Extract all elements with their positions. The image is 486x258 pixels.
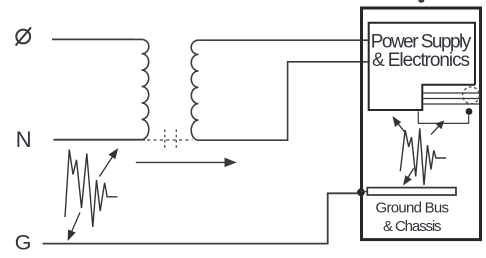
dashed neutral continuation through core xyxy=(147,139,193,141)
wire secondary top to power supply xyxy=(205,39,367,41)
left noise burst zigzag xyxy=(65,150,117,228)
cable bond dot xyxy=(466,108,473,115)
wire secondary bottom, up and into power supply xyxy=(197,62,368,140)
phase symbol Ø xyxy=(16,27,31,45)
power supply box with cable notch xyxy=(369,23,475,110)
ground bus bar xyxy=(367,188,456,195)
wire phase line xyxy=(52,38,135,40)
right zigzag arrow down-left to ground bus xyxy=(404,168,414,184)
I/O cable line 2 xyxy=(423,98,479,100)
svg-text:& Electronics: & Electronics xyxy=(372,50,470,71)
I/O cable line 1 xyxy=(423,92,479,94)
equipment enclosure box xyxy=(362,8,481,240)
I/O cable line 3 xyxy=(423,103,479,105)
left zigzag arrow down-left to ground xyxy=(68,213,80,240)
right zigzag arrow up-left xyxy=(393,118,405,133)
right zigzag arrow up-right xyxy=(431,121,443,134)
cut-off text remnant at top xyxy=(418,0,424,3)
wire dot to ground bus xyxy=(361,191,368,193)
right noise burst zigzag xyxy=(400,128,446,185)
transformer secondary coil xyxy=(191,40,205,140)
transformer primary coil xyxy=(135,39,149,139)
dashed highlight circle at cable entry xyxy=(463,87,480,104)
svg-text:N: N xyxy=(16,127,32,152)
left zigzag arrow up-right xyxy=(100,150,118,177)
junction dot on enclosure wall xyxy=(357,188,365,196)
svg-text:& Chassis: & Chassis xyxy=(383,218,442,235)
noise propagation arrow xyxy=(136,159,235,166)
connector shelf below cables xyxy=(418,111,468,123)
svg-text:Ground Bus: Ground Bus xyxy=(376,200,450,217)
svg-text:G: G xyxy=(15,230,32,254)
wire neutral line xyxy=(54,139,146,141)
transformer core dashed line 2 xyxy=(175,130,177,150)
wire ground line xyxy=(43,193,360,243)
transformer core dashed line 1 xyxy=(164,130,166,150)
